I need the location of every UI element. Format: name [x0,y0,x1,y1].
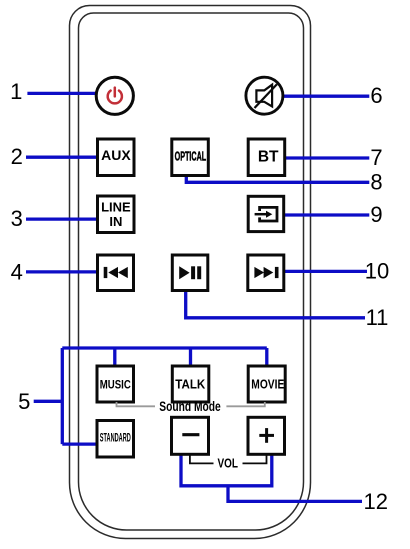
play pause button [172,255,208,291]
callout line 12 [181,454,362,502]
svg-text:OPTICAL: OPTICAL [175,150,207,164]
remote body inner outline [79,13,304,530]
svg-text:6: 6 [370,83,382,108]
VOL black connector left [190,454,214,463]
Sound Mode gray connector right [226,402,264,406]
remote body outer outline [70,6,311,539]
svg-text:IN: IN [109,214,122,229]
callout line 10 [282,270,367,273]
svg-text:LINE: LINE [101,199,131,214]
svg-text:STANDARD: STANDARD [100,432,131,444]
mute button circle [246,77,283,114]
volume plus button [248,417,285,454]
svg-text:MUSIC: MUSIC [100,379,131,391]
volume minus button [172,417,209,454]
callout line 11 [186,291,365,318]
AUX button [98,139,135,176]
power button circle [96,77,133,114]
callout line 4 [26,270,99,273]
previous track icon [104,267,128,278]
callout line 9 [284,213,369,216]
Sound Mode gray connector left [117,402,156,406]
svg-text:10: 10 [365,258,389,283]
svg-text:3: 3 [11,206,23,231]
TALK button [172,366,209,402]
MUSIC button [97,366,134,402]
svg-text:5: 5 [18,389,30,414]
LINE IN button [98,196,135,233]
minus sign [182,433,199,436]
svg-text:11: 11 [366,305,389,330]
VOL black connector right [243,454,267,463]
svg-text:MOVIE: MOVIE [251,377,284,391]
callout line 7 [285,156,369,159]
next track icon [254,267,278,278]
callout bracket 5 [34,348,267,444]
MOVIE button [248,366,285,402]
mute icon [255,84,277,108]
svg-text:TALK: TALK [175,376,206,391]
svg-text:1: 1 [10,79,22,104]
STANDARD button [97,421,134,458]
svg-text:2: 2 [11,144,23,169]
callout line 3 [26,217,99,220]
input select icon [255,207,277,221]
BT button [248,139,285,176]
svg-text:9: 9 [370,202,382,227]
next track button [248,255,284,291]
svg-text:BT: BT [258,148,279,165]
plus sign [259,428,274,443]
power icon [108,88,122,104]
callout line 1 [27,92,96,95]
callout line 8 [186,176,369,183]
callout line 2 [26,156,99,159]
svg-text:Sound Mode: Sound Mode [159,399,221,414]
svg-text:7: 7 [370,145,382,170]
svg-text:12: 12 [363,489,387,514]
svg-text:4: 4 [11,260,23,285]
callout line 6 [283,95,369,98]
svg-text:AUX: AUX [101,147,131,163]
OPTICAL button [172,139,209,176]
svg-text:8: 8 [370,169,382,194]
play pause icon [179,266,201,279]
previous track button [98,255,134,291]
svg-text:VOL: VOL [217,457,238,471]
input select button [248,196,284,231]
